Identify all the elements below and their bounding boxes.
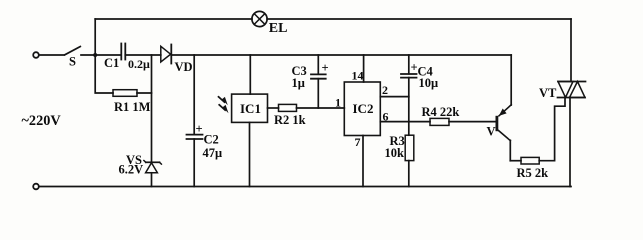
- svg-text:47μ: 47μ: [203, 146, 223, 160]
- wire IC1 top pin: [249, 55, 251, 94]
- wire: [94, 19, 96, 55]
- wire IC1 out: [268, 107, 279, 109]
- svg-text:6.2V: 6.2V: [119, 163, 144, 177]
- svg-text:IC2: IC2: [353, 101, 374, 116]
- svg-text:7: 7: [355, 135, 361, 149]
- wire: [408, 161, 410, 187]
- terminal bottom-left: [33, 184, 39, 190]
- diode VD: [161, 46, 171, 62]
- zener VS: [146, 163, 158, 173]
- wire C4 branch: [408, 55, 410, 74]
- resistor R4: [430, 118, 449, 125]
- wire: [39, 54, 64, 56]
- capacitor C3: [311, 73, 326, 75]
- wire pin 7: [362, 136, 364, 187]
- IC2 box: [344, 82, 380, 136]
- svg-text:14: 14: [352, 69, 364, 83]
- wire: [193, 139, 195, 187]
- svg-text:+: +: [196, 122, 203, 136]
- triac VT: [558, 81, 586, 83]
- resistor R1: [113, 90, 137, 97]
- wire bottom rail: [39, 186, 571, 188]
- wire collector: [509, 140, 511, 160]
- wire: [125, 54, 161, 56]
- op-amp U1 IC1 box: [232, 94, 268, 122]
- wire R1 left leg: [95, 55, 113, 93]
- svg-text:1: 1: [335, 96, 341, 110]
- wire rail2: [95, 54, 122, 56]
- capacitor C4: [401, 73, 417, 75]
- wire IC1 bottom pin: [249, 122, 251, 186]
- light arrows: [219, 97, 229, 113]
- svg-text:10μ: 10μ: [419, 76, 439, 90]
- wire zener branch: [151, 55, 153, 162]
- resistor R2: [279, 104, 297, 111]
- svg-text:0.2μ: 0.2μ: [128, 57, 150, 71]
- svg-text:+: +: [322, 61, 329, 75]
- wire C3 branch: [317, 55, 319, 74]
- wire pin 14: [363, 55, 365, 82]
- transistor V (PNP): [496, 116, 499, 131]
- wire to base: [449, 121, 496, 123]
- svg-text:C2: C2: [204, 133, 219, 147]
- wire triac bottom: [569, 98, 571, 187]
- wire node to pins 2-6: [408, 78, 410, 136]
- svg-text:VT: VT: [539, 86, 557, 100]
- switch S: [65, 47, 81, 55]
- resistor R3: [405, 135, 414, 160]
- svg-text:EL: EL: [269, 21, 288, 36]
- capacitor C1: [120, 44, 122, 60]
- wire: [297, 107, 345, 109]
- wire C2 branch top: [193, 55, 195, 134]
- wire rail2 right: [171, 54, 511, 56]
- svg-text:C1: C1: [104, 56, 119, 70]
- wire to triac: [570, 19, 572, 82]
- svg-text:VD: VD: [175, 60, 193, 74]
- svg-text:~220V: ~220V: [22, 113, 62, 129]
- wire: [151, 173, 153, 187]
- svg-text:6: 6: [383, 110, 389, 124]
- svg-text:IC1: IC1: [240, 101, 261, 116]
- wire top rail left: [95, 18, 252, 20]
- wire: [317, 79, 319, 108]
- wire: [137, 92, 152, 94]
- terminal top-left: [33, 52, 39, 58]
- svg-text:S: S: [69, 55, 76, 69]
- svg-text:1μ: 1μ: [292, 76, 305, 90]
- capacitor C2: [187, 134, 203, 136]
- svg-text:10k: 10k: [385, 146, 405, 160]
- wire gate path: [539, 98, 565, 161]
- lamp EL: [252, 11, 267, 26]
- svg-text:V: V: [487, 125, 496, 139]
- wire top rail right: [267, 18, 571, 20]
- node junction: [93, 53, 97, 57]
- svg-text:2: 2: [382, 83, 388, 97]
- svg-text:R4 22k: R4 22k: [422, 105, 460, 119]
- wire pin 6: [380, 121, 430, 123]
- svg-text:R5 2k: R5 2k: [517, 166, 549, 180]
- svg-text:R2 1k: R2 1k: [274, 113, 306, 127]
- resistor R5: [521, 157, 539, 164]
- svg-text:R1 1M: R1 1M: [114, 100, 151, 114]
- wire pin 2: [380, 96, 409, 98]
